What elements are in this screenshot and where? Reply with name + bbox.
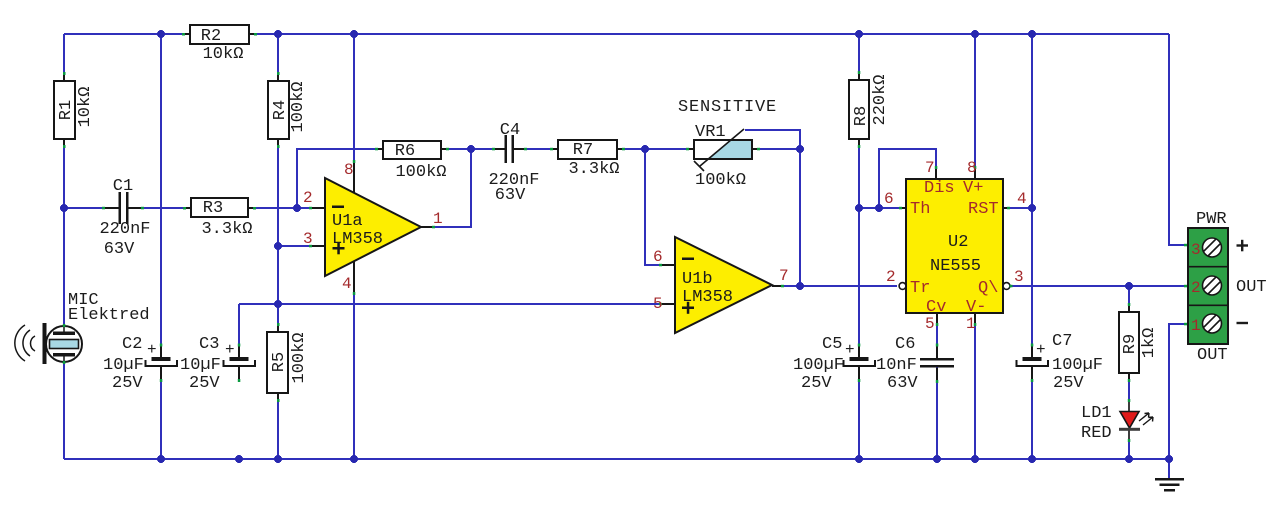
- svg-text:2: 2: [303, 189, 313, 207]
- node VR1 right wiper: [796, 145, 804, 153]
- resistor R7: [550, 140, 625, 179]
- node bottom rail R5: [274, 455, 282, 463]
- svg-text:8: 8: [967, 159, 977, 177]
- svg-text:R1: R1: [57, 100, 76, 120]
- wire left rail R1 bottom to mic: [63, 139, 65, 326]
- wire C4 to R7: [513, 148, 558, 150]
- node R7 output VR1 left: [641, 145, 649, 153]
- svg-text:R7: R7: [573, 141, 593, 160]
- wire right drop to PWR pin3: [1169, 34, 1188, 245]
- svg-text:10kΩ: 10kΩ: [76, 87, 95, 128]
- wire U1a pin1 output: [421, 149, 471, 227]
- wire U1a pin3: [278, 245, 325, 247]
- node Th Dis tap: [875, 204, 883, 212]
- node bottom rail C5: [855, 455, 863, 463]
- svg-text:C4: C4: [500, 121, 520, 140]
- capacitor C2: [103, 335, 177, 393]
- resistor R8: [849, 71, 890, 148]
- svg-text:3: 3: [1014, 268, 1024, 286]
- wire Th line: [859, 207, 902, 209]
- svg-text:8: 8: [344, 161, 354, 179]
- wire U1b pin7 output to Tr: [772, 285, 897, 287]
- svg-text:NE555: NE555: [930, 257, 981, 276]
- node R8 C5: [855, 204, 863, 212]
- wire Cv to C6: [936, 323, 938, 346]
- svg-text:V+: V+: [963, 179, 983, 198]
- node bottom rail C7: [1028, 455, 1036, 463]
- wire RST to right riser: [1007, 207, 1032, 209]
- node top rail pin8 tap: [350, 30, 358, 38]
- wire VR1 wiper: [745, 130, 800, 149]
- screw terminal 1: [1203, 314, 1222, 333]
- svg-text:10µF: 10µF: [103, 356, 144, 375]
- wire U1a pin8 supply: [353, 34, 355, 193]
- resistor R2: [182, 25, 257, 64]
- svg-text:5: 5: [925, 315, 935, 333]
- wire R9 bottom to LED: [1128, 373, 1130, 411]
- svg-text:+: +: [1036, 341, 1046, 359]
- svg-text:5: 5: [653, 295, 663, 313]
- svg-text:220nF: 220nF: [99, 220, 150, 239]
- wire top rail main segment: [249, 33, 1169, 35]
- resistor R6: [375, 141, 449, 182]
- wire R4 bottom to R5 top: [277, 139, 279, 332]
- svg-text:100kΩ: 100kΩ: [290, 332, 309, 383]
- ground: [1155, 478, 1184, 492]
- timer U2 NE555: [884, 159, 1027, 333]
- svg-text:63V: 63V: [495, 186, 526, 205]
- svg-text:R8: R8: [852, 106, 871, 126]
- wire C6 bottom: [936, 367, 938, 459]
- node R1 C1 mic: [60, 204, 68, 212]
- wire R9 top: [1128, 286, 1130, 312]
- svg-text:U1b: U1b: [682, 270, 713, 289]
- svg-text:C6: C6: [895, 335, 915, 354]
- svg-text:3: 3: [1191, 241, 1201, 259]
- svg-text:1kΩ: 1kΩ: [1140, 328, 1159, 359]
- capacitor C4: [488, 121, 539, 205]
- wire PWR pin1 minus: [1169, 324, 1188, 459]
- svg-text:100kΩ: 100kΩ: [289, 81, 308, 132]
- svg-text:LD1: LD1: [1081, 404, 1112, 423]
- node bottom rail C2: [157, 455, 165, 463]
- wire C2 bottom: [160, 366, 162, 459]
- wire Q output to PWR pin2: [1012, 285, 1188, 287]
- svg-text:7: 7: [779, 267, 789, 285]
- svg-text:PWR: PWR: [1196, 210, 1227, 229]
- node pin3 bias: [274, 242, 282, 250]
- svg-text:63V: 63V: [887, 374, 918, 393]
- op-amp U1b: [653, 237, 789, 333]
- svg-text:10kΩ: 10kΩ: [203, 45, 244, 64]
- svg-text:C7: C7: [1052, 332, 1072, 351]
- wire C1 right to R3: [128, 207, 191, 209]
- svg-text:100kΩ: 100kΩ: [395, 163, 446, 182]
- wire C2 top: [160, 34, 162, 357]
- resistor R4: [268, 72, 308, 148]
- svg-text:Th: Th: [910, 200, 930, 219]
- node RST riser: [1028, 204, 1036, 212]
- svg-text:+: +: [147, 341, 157, 359]
- pin bubble Tr: [899, 283, 906, 290]
- svg-text:3.3kΩ: 3.3kΩ: [568, 160, 619, 179]
- capacitor C1: [99, 177, 150, 259]
- svg-text:R4: R4: [271, 100, 290, 120]
- svg-text:25V: 25V: [189, 374, 220, 393]
- svg-text:R9: R9: [1121, 334, 1140, 354]
- wire V+ pin8 drop: [974, 34, 976, 179]
- svg-text:25V: 25V: [112, 374, 143, 393]
- svg-text:3.3kΩ: 3.3kΩ: [201, 220, 252, 239]
- svg-text:R6: R6: [395, 142, 415, 161]
- svg-text:Elektred: Elektred: [68, 306, 150, 325]
- svg-text:C3: C3: [199, 335, 219, 354]
- svg-text:1: 1: [966, 315, 976, 333]
- node bottom rail LED: [1125, 455, 1133, 463]
- svg-text:C5: C5: [822, 335, 842, 354]
- wire R5 bottom: [277, 393, 279, 459]
- svg-text:2: 2: [886, 268, 896, 286]
- svg-text:+: +: [225, 341, 235, 359]
- node top rail V+ tap: [971, 30, 979, 38]
- svg-text:LM358: LM358: [332, 230, 383, 249]
- node R6 output: [467, 145, 475, 153]
- wire C5 bottom: [858, 366, 860, 459]
- LED LD1: [1081, 399, 1153, 443]
- node top rail C2 tap: [157, 30, 165, 38]
- microphone MIC Elektred: [15, 291, 150, 364]
- resistor R1: [54, 72, 95, 148]
- svg-text:VR1: VR1: [695, 123, 726, 142]
- capacitor C3: [180, 335, 255, 393]
- svg-text:Dis: Dis: [924, 179, 955, 198]
- node Q R9 tap: [1125, 282, 1133, 290]
- node top rail R8 tap: [855, 30, 863, 38]
- node top rail RST riser tap: [1028, 30, 1036, 38]
- wire bias line C3 to U1b pin5: [239, 303, 675, 305]
- svg-text:1: 1: [433, 210, 443, 228]
- svg-text:3: 3: [303, 230, 313, 248]
- wire C3 stub: [238, 304, 240, 346]
- wire R3 to U1a pin2: [248, 207, 325, 209]
- capacitor C5: [793, 335, 875, 393]
- screw terminal 3: [1203, 238, 1222, 257]
- svg-text:6: 6: [653, 248, 663, 266]
- wire C1 left: [64, 207, 119, 209]
- wire left rail R1 top: [63, 34, 65, 81]
- svg-text:1: 1: [1191, 317, 1201, 335]
- node bottom rail ground: [1165, 455, 1173, 463]
- resistor R3: [183, 198, 256, 239]
- svg-text:100kΩ: 100kΩ: [695, 171, 746, 190]
- svg-text:2: 2: [1191, 279, 1201, 297]
- svg-text:Q\: Q\: [978, 279, 998, 298]
- wire R7 to VR1: [617, 148, 694, 150]
- svg-text:R2: R2: [201, 27, 221, 46]
- screw terminal 2: [1203, 276, 1222, 295]
- wire Dis loop: [879, 149, 936, 208]
- wire U1a pin4 ground: [353, 261, 355, 459]
- svg-text:R3: R3: [203, 199, 223, 218]
- svg-text:C1: C1: [113, 177, 133, 196]
- wire VR1 right terminal: [752, 148, 800, 150]
- wire LED to rail: [1128, 429, 1130, 459]
- wire C7 bottom: [1031, 366, 1033, 459]
- wire mic bottom to rail: [63, 362, 65, 459]
- svg-text:100µF: 100µF: [793, 356, 844, 375]
- capacitor C7: [1017, 332, 1104, 393]
- svg-text:LM358: LM358: [682, 288, 733, 307]
- svg-text:4: 4: [1017, 190, 1027, 208]
- svg-text:C2: C2: [122, 335, 142, 354]
- node pin2 feedback tap: [293, 204, 301, 212]
- wire R8 bottom to C5: [858, 139, 860, 357]
- resistor R9: [1119, 303, 1159, 382]
- node bottom rail C3: [235, 455, 243, 463]
- op-amp U1a: [303, 160, 443, 295]
- wire feedback riser at node pin2: [297, 149, 383, 208]
- svg-text:4: 4: [342, 275, 352, 293]
- wire riser x1032 top to C7: [1031, 34, 1033, 357]
- svg-text:SENSITIVE: SENSITIVE: [678, 98, 777, 117]
- wire feedback drop x800: [799, 149, 801, 286]
- connector PWR: [1184, 210, 1267, 365]
- node bottom rail pin4: [350, 455, 358, 463]
- trimmer VR1: [686, 123, 760, 190]
- svg-text:25V: 25V: [801, 374, 832, 393]
- capacitor C6: [876, 335, 954, 393]
- svg-text:U2: U2: [948, 233, 968, 252]
- node bias divider C3: [274, 300, 282, 308]
- svg-text:Tr: Tr: [910, 279, 930, 298]
- wire V- pin1 ground: [974, 323, 976, 459]
- svg-text:63V: 63V: [104, 240, 135, 259]
- pin bubble Q: [1003, 283, 1010, 290]
- node bottom rail C6: [933, 455, 941, 463]
- svg-text:220kΩ: 220kΩ: [871, 74, 890, 125]
- svg-text:10nF: 10nF: [876, 356, 917, 375]
- wire R6 to C4: [441, 148, 505, 150]
- resistor R5: [267, 323, 309, 402]
- svg-text:25V: 25V: [1053, 374, 1084, 393]
- svg-text:7: 7: [925, 159, 935, 177]
- node U1b output: [796, 282, 804, 290]
- svg-text:RST: RST: [968, 200, 999, 219]
- wire R8 top: [858, 34, 860, 80]
- svg-text:OUT: OUT: [1236, 278, 1267, 297]
- wire R4 top: [277, 34, 279, 81]
- node bottom rail V-: [971, 455, 979, 463]
- svg-text:R5: R5: [270, 352, 289, 372]
- svg-text:RED: RED: [1081, 424, 1112, 443]
- wire ground stub: [1168, 459, 1170, 478]
- wire top rail left segment: [64, 33, 190, 35]
- wire VR1 node down to U1b pin6: [645, 149, 675, 265]
- svg-text:100µF: 100µF: [1052, 356, 1103, 375]
- svg-text:10µF: 10µF: [180, 356, 221, 375]
- wire bottom rail: [64, 458, 1169, 460]
- svg-text:U1a: U1a: [332, 212, 363, 231]
- node top rail R4 tap: [274, 30, 282, 38]
- svg-text:OUT: OUT: [1197, 346, 1228, 365]
- svg-text:6: 6: [884, 190, 894, 208]
- svg-text:+: +: [845, 341, 855, 359]
